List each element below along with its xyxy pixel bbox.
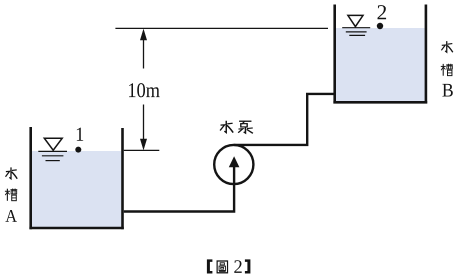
tank A bottom [29, 227, 123, 230]
water level symbol tank A: triangle [44, 138, 62, 150]
discharge pipe (pump to tank B) [234, 94, 334, 145]
water level symbol tank B: line 1 [342, 27, 370, 29]
dimension arrow lower shaft [143, 105, 145, 144]
label tank A: 水 [5, 167, 17, 178]
dimension arrow up head [140, 29, 147, 41]
tank A right wall [121, 128, 124, 229]
label tank B: 水 [441, 41, 452, 52]
water level symbol tank B: triangle [348, 15, 363, 26]
caption text 2 [234, 260, 241, 273]
label tank A: 槽 [5, 188, 17, 200]
point 2 dot [377, 23, 383, 29]
water level symbol tank A: line 3 [46, 160, 60, 162]
caption bracket right 】 [245, 259, 251, 273]
tank A water level tick [124, 149, 160, 151]
point 1 label [77, 128, 83, 141]
datum reference line (level 2) [115, 27, 328, 29]
tank B right wall [425, 5, 428, 104]
point 2 label [378, 5, 387, 19]
tank A water [32, 151, 121, 228]
pump label: 泵 [238, 121, 253, 133]
pump circle [214, 145, 253, 184]
dimension arrow down head [140, 139, 147, 151]
tank A left wall [29, 127, 32, 229]
label tank B: 槽 [441, 64, 453, 76]
tank B left wall [333, 5, 336, 104]
pump label: 水 [220, 121, 233, 133]
suction pipe (tank A to pump) [124, 163, 234, 212]
label tank B: B [442, 84, 452, 97]
caption glyph 圖 [217, 261, 227, 273]
water level symbol tank A: line 2 [42, 155, 64, 157]
water level symbol tank A: line 1 [38, 150, 67, 152]
dimension arrow upper shaft [143, 36, 145, 69]
caption bracket left 【 [207, 259, 213, 273]
water level symbol tank B: line 2 [346, 31, 367, 33]
tank B bottom [333, 101, 427, 104]
dimension label 10m [129, 83, 160, 97]
pump arrow head [229, 156, 240, 167]
point 1 dot [75, 147, 81, 153]
label tank A: A [5, 210, 17, 222]
tank B water [336, 28, 425, 101]
water level symbol tank B: line 3 [349, 34, 365, 36]
